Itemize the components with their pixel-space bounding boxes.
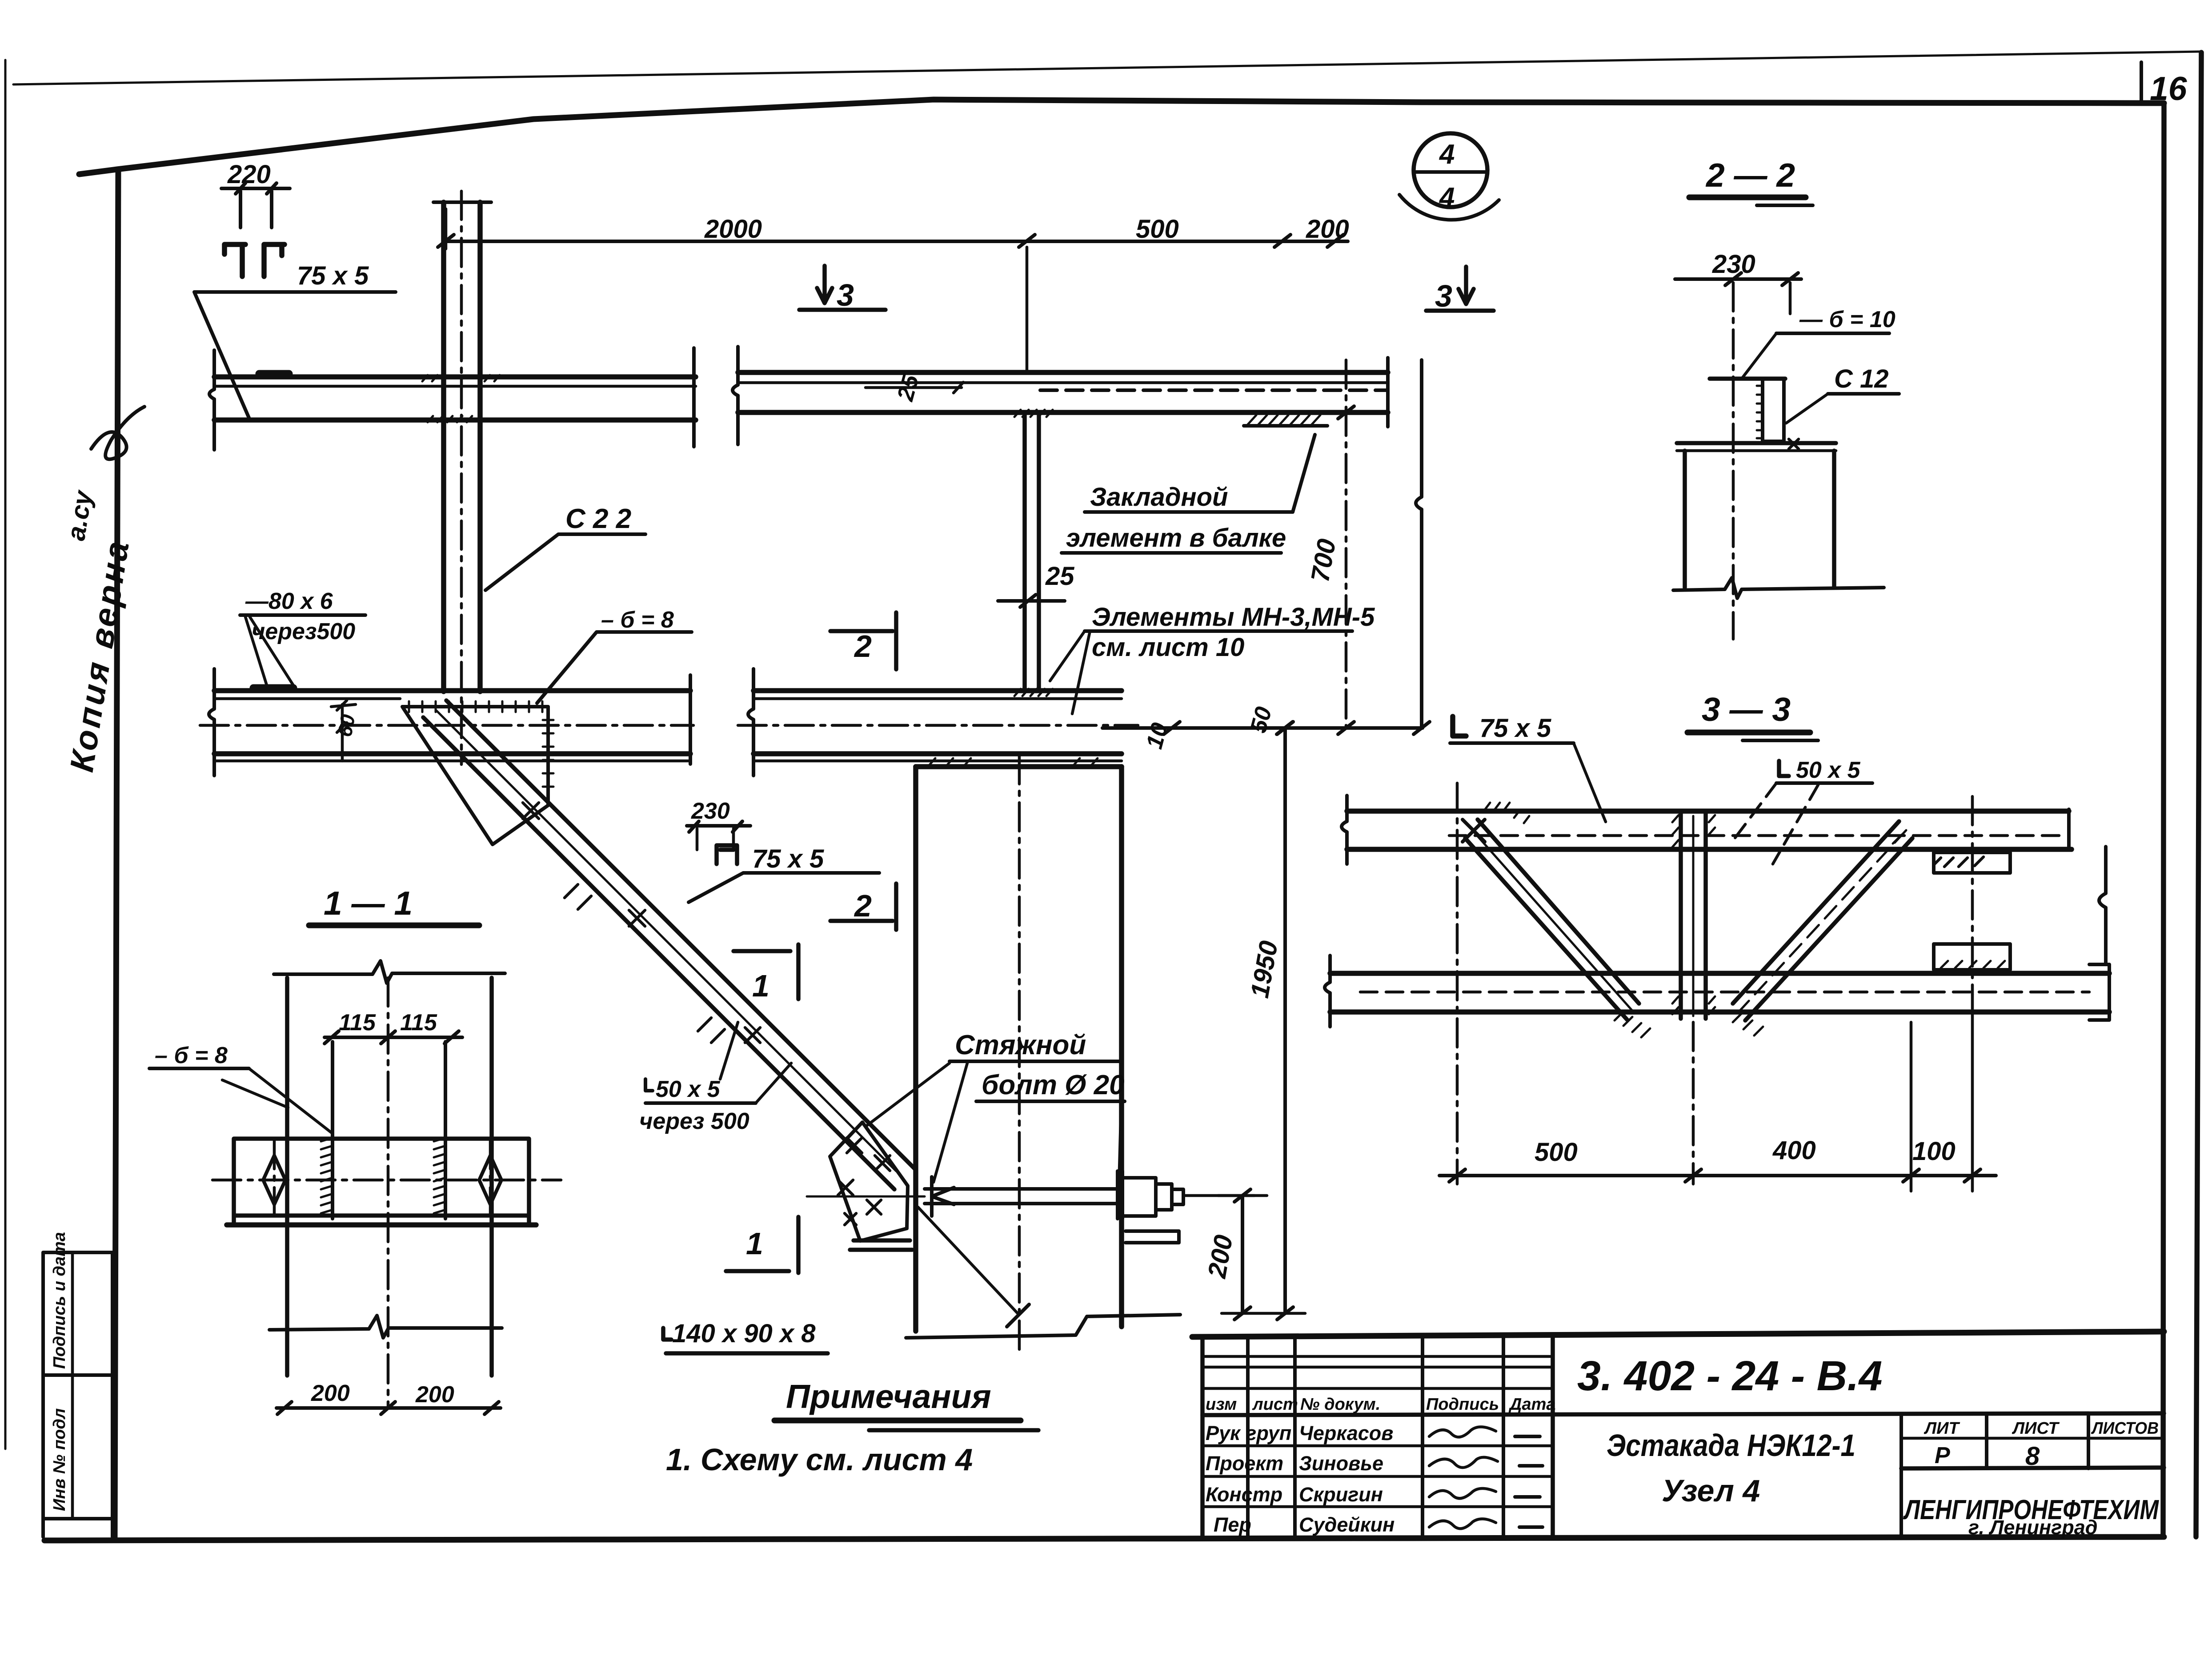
svg-text:230: 230 — [1712, 250, 1755, 279]
svg-text:Элементы МН-3,МН-5: Элементы МН-3,МН-5 — [1092, 603, 1375, 632]
dim 200 vertical at column base — [1241, 1196, 1244, 1313]
dim line 500 400 100 — [1439, 1174, 1996, 1177]
bolt left arrow — [932, 1177, 954, 1216]
svg-text:2 — 2: 2 — 2 — [1705, 156, 1795, 194]
section mark 2 upper — [830, 629, 893, 633]
brace cut ticks — [565, 884, 725, 1043]
beam2 left end break — [209, 669, 214, 776]
diagonal to column base — [918, 1207, 1019, 1315]
frame right inner — [2163, 103, 2164, 1537]
right closure line with break — [1416, 360, 1422, 728]
spring hatch bolt2 — [434, 1138, 445, 1213]
svg-text:4: 4 — [1439, 182, 1455, 213]
lit table rows — [1901, 1437, 2164, 1440]
svg-text:115: 115 — [400, 1010, 437, 1036]
stiffener plate mark on beam1 — [259, 370, 289, 378]
diagonal brace edge B — [446, 700, 915, 1169]
weld ticks at plate bottom — [1014, 689, 1053, 696]
svg-text:— б = 10: — б = 10 — [1799, 307, 1895, 332]
svg-text:Инв № подл: Инв № подл — [50, 1408, 69, 1511]
svg-text:400: 400 — [1772, 1136, 1816, 1165]
bottom chord left break — [1325, 956, 1330, 1027]
svg-text:75 х 5: 75 х 5 — [297, 261, 369, 290]
svg-text:8: 8 — [2025, 1442, 2040, 1471]
plate lower right — [1934, 944, 2010, 970]
label C22 underline and leader — [485, 534, 645, 590]
section mark 3 down-left — [817, 266, 832, 303]
channel glyph right — [264, 244, 285, 276]
top closure line with break — [274, 961, 505, 983]
svg-text:500: 500 — [1136, 215, 1179, 244]
svg-text:2000: 2000 — [704, 215, 762, 244]
top line — [1192, 1332, 2164, 1337]
hidden plate dashed line — [1040, 388, 1386, 392]
stiffener mark on beam2 — [253, 684, 293, 692]
diamond rivet right — [479, 1156, 501, 1204]
brace weld x-marks — [523, 803, 760, 1043]
gusset weld ticks top — [409, 701, 542, 712]
web right — [489, 978, 494, 1376]
svg-text:—80 х 6: —80 х 6 — [245, 588, 333, 614]
channel glyph small — [717, 845, 737, 864]
cap plate — [1710, 376, 1785, 381]
node circle 4/4 — [1414, 133, 1487, 207]
dim extension at post — [445, 209, 448, 249]
post weld ticks — [1672, 815, 1715, 1014]
weld ticks beam1 at post — [422, 375, 500, 422]
beam2 right left end break — [748, 669, 753, 776]
mid post — [1679, 812, 1683, 1019]
beam top 2-2 — [1677, 441, 1836, 445]
svg-text:г. Ленинград: г. Ленинград — [1968, 1516, 2098, 1539]
column 2-2 — [1683, 451, 1687, 588]
post C22 top cap — [433, 200, 491, 204]
leaders to bolt — [866, 1063, 1121, 1182]
svg-text:Черкасов: Черкасов — [1299, 1422, 1393, 1444]
svg-text:115: 115 — [339, 1010, 376, 1036]
rod tail — [1183, 1194, 1254, 1197]
column right edge — [1119, 767, 1124, 1327]
beam1 right bottom line — [738, 410, 1388, 415]
spring hatch bolt1 — [321, 1138, 333, 1213]
leaders 80x6 — [245, 617, 296, 689]
svg-text:2: 2 — [854, 888, 872, 923]
svg-text:лист: лист — [1252, 1395, 1298, 1414]
lower gusset X welds — [838, 1138, 890, 1225]
right diagonal — [1733, 821, 1899, 1004]
svg-text:3: 3 — [1435, 279, 1452, 313]
weld ticks channel — [1757, 386, 1763, 438]
svg-text:Подпись и дата: Подпись и дата — [50, 1232, 69, 1369]
diagonal brace mid line — [436, 710, 896, 1171]
beam1 left: bottom line — [214, 417, 696, 423]
left diagonal end welds — [1615, 1012, 1650, 1037]
svg-text:Проект: Проект — [1206, 1452, 1283, 1475]
frame bottom — [44, 1537, 2164, 1540]
bottom chord right end — [2089, 964, 2109, 1020]
svg-text:С 2 2: С 2 2 — [565, 504, 631, 534]
svg-text:Закладной: Закладной — [1090, 483, 1228, 512]
washer plates — [1116, 1171, 1119, 1219]
svg-text:50 х 5: 50 х 5 — [656, 1076, 721, 1102]
dim 60 rotated — [333, 713, 360, 739]
beam1 right left end break — [733, 347, 738, 444]
svg-text:ЛИТ: ЛИТ — [1923, 1419, 1960, 1438]
channel box — [1763, 379, 1784, 441]
tick line at bolt level — [1218, 1194, 1267, 1197]
dim 220 line — [221, 187, 290, 190]
tick line at bottom — [1222, 1312, 1305, 1315]
beam2 right end tick — [689, 675, 692, 764]
small bracket below nut — [1126, 1231, 1179, 1243]
svg-text:1. Схему см. лист 4: 1. Схему см. лист 4 — [666, 1442, 973, 1477]
frame left — [115, 169, 118, 1539]
svg-text:1: 1 — [752, 968, 769, 1003]
svg-text:Узел 4: Узел 4 — [1662, 1473, 1760, 1508]
weld ticks on column top — [929, 758, 1098, 765]
svg-text:2: 2 — [854, 629, 872, 664]
bottom chord lines — [1330, 971, 2109, 976]
svg-text:С 12: С 12 — [1834, 364, 1889, 393]
svg-text:200: 200 — [311, 1380, 350, 1406]
svg-text:50 х 5: 50 х 5 — [1796, 757, 1861, 783]
dim line 2000/500/200 — [446, 240, 1348, 243]
svg-text:Скригин: Скригин — [1299, 1483, 1383, 1506]
svg-text:3. 402 - 24 - В.4: 3. 402 - 24 - В.4 — [1577, 1352, 1882, 1400]
svg-text:Судейкин: Судейкин — [1299, 1513, 1395, 1536]
svg-text:Рук груп: Рук груп — [1206, 1422, 1291, 1444]
left margin stamp box 2 — [43, 1375, 112, 1519]
plate upper right — [1934, 852, 2010, 873]
column left edge — [913, 767, 918, 1331]
weld tick cluster top chord left — [1485, 803, 1529, 823]
gusset plate on beam2 — [402, 707, 548, 844]
svg-text:220: 220 — [227, 160, 271, 189]
svg-text:Дата: Дата — [1508, 1395, 1556, 1414]
svg-text:через500: через500 — [252, 619, 355, 644]
svg-text:100: 100 — [1912, 1137, 1956, 1166]
svg-text:№ докум.: № докум. — [1300, 1395, 1380, 1414]
beam2 right segment over column — [753, 688, 1122, 693]
truss centerline left — [1456, 783, 1459, 1184]
column centerline — [1018, 756, 1021, 1356]
page number box — [2140, 62, 2143, 104]
beam1 right top lines — [738, 370, 1388, 375]
svg-text:Констр: Констр — [1206, 1483, 1282, 1506]
svg-text:ЛИСТ: ЛИСТ — [2012, 1419, 2060, 1438]
beam2 left top lines — [214, 688, 690, 693]
beam1 left: top flange lines — [214, 374, 696, 380]
header row full width — [1202, 1413, 2164, 1415]
svg-text:75 х 5: 75 х 5 — [1479, 714, 1551, 743]
svg-text:16: 16 — [2150, 70, 2188, 107]
svg-text:Подпись: Подпись — [1426, 1395, 1499, 1414]
frame right outer — [2196, 52, 2201, 1537]
dim 1950 vertical — [1283, 728, 1287, 1313]
right cut line with S break — [2099, 847, 2106, 964]
leader 75x5 — [194, 292, 396, 418]
svg-text:Пер: Пер — [1214, 1513, 1251, 1536]
left table rows — [1202, 1355, 1553, 1358]
svg-text:– б = 8: – б = 8 — [601, 607, 674, 633]
column view2 top — [916, 764, 1122, 769]
web left — [285, 978, 289, 1376]
channel glyph left — [224, 244, 245, 276]
svg-text:200: 200 — [415, 1382, 454, 1408]
dash marks in data column — [1515, 1436, 1543, 1527]
section mark 1 upper — [733, 949, 790, 953]
dim 25 rotated — [892, 372, 924, 404]
flange box — [234, 1139, 529, 1223]
extension line to dim 2000 — [1026, 247, 1029, 372]
post C22 right edge — [477, 202, 483, 692]
beam2 centerline — [200, 724, 693, 727]
plate edge line with 25 dim — [866, 386, 962, 389]
mid post centerline — [1692, 1022, 1695, 1184]
svg-text:Р: Р — [1935, 1443, 1950, 1468]
svg-text:75 х 5: 75 х 5 — [752, 844, 824, 873]
diamond rivet left — [263, 1156, 285, 1204]
column 2-2 bottom break — [1673, 578, 1884, 598]
svg-text:500: 500 — [1535, 1138, 1578, 1167]
diagonal brace edge A — [423, 717, 894, 1189]
post C22 centerline — [460, 191, 463, 764]
lower gusset base plate — [850, 1240, 912, 1250]
left table verticals — [1200, 1337, 1205, 1538]
svg-text:Эстакада НЭК12-1: Эстакада НЭК12-1 — [1607, 1428, 1855, 1463]
left margin stamp box 1 — [43, 1252, 112, 1375]
name rows — [1202, 1444, 1553, 1448]
center line vertical — [387, 978, 390, 1408]
plates centerline — [1971, 796, 1974, 995]
svg-text:болт Ø 20: болт Ø 20 — [982, 1070, 1125, 1100]
svg-text:Стяжной: Стяжной — [955, 1030, 1086, 1060]
svg-text:230: 230 — [691, 798, 730, 824]
svg-text:элемент в балке: элемент в балке — [1066, 524, 1286, 552]
svg-text:200: 200 — [1306, 215, 1349, 244]
beam1 left end break — [209, 350, 214, 450]
dim 700 dash-dot vertical — [1345, 360, 1348, 728]
svg-text:3 — 3: 3 — 3 — [1702, 691, 1791, 728]
left margin inscription: Копия верна — [26, 488, 143, 774]
svg-text:Зиновье: Зиновье — [1299, 1452, 1383, 1475]
column bottom break — [906, 1304, 1180, 1338]
svg-text:Примечания: Примечания — [786, 1378, 991, 1415]
signature flourish — [91, 407, 144, 459]
svg-text:– б = 8: – б = 8 — [155, 1043, 228, 1068]
top chord right end — [2067, 809, 2071, 849]
svg-text:1 — 1: 1 — 1 — [324, 884, 413, 922]
bottom closure line with break — [269, 1316, 502, 1338]
extension for 400/100 — [1910, 1022, 1913, 1191]
lit table verticals — [1899, 1414, 1903, 1538]
centerline 2-2 — [1732, 283, 1735, 639]
bent plate post view2 — [1022, 412, 1027, 691]
beam1 right end tick — [1386, 358, 1390, 427]
gusset weld ticks right — [543, 720, 553, 787]
nut — [1123, 1178, 1183, 1216]
left diagonal — [1478, 820, 1639, 1004]
svg-text:через 500: через 500 — [639, 1108, 749, 1134]
svg-text:3: 3 — [837, 278, 854, 312]
beam2 bottom lines — [214, 751, 690, 756]
lower gusset plate — [830, 1122, 908, 1241]
svg-text:изм: изм — [1206, 1395, 1237, 1414]
dim line 10/50 right of beam — [1102, 726, 1423, 730]
svg-text:ЛИСТОВ: ЛИСТОВ — [2091, 1419, 2159, 1438]
weld ticks at plate top — [1014, 410, 1053, 417]
arc under circle — [1399, 195, 1499, 220]
post C22 left edge — [441, 202, 446, 692]
paper edge top — [13, 52, 2200, 84]
leader to embedded plate — [1293, 435, 1315, 512]
embedded plate with hatch under beam — [1244, 424, 1327, 428]
frame top — [79, 100, 2164, 174]
svg-text:140 х 90 х 8: 140 х 90 х 8 — [672, 1319, 816, 1348]
paper edge left — [4, 60, 7, 1449]
svg-text:4: 4 — [1439, 139, 1455, 170]
beam1 right end tick — [692, 348, 696, 447]
svg-text:см. лист 10: см. лист 10 — [1092, 633, 1244, 662]
svg-text:60: 60 — [333, 713, 360, 739]
top chord left break — [1342, 796, 1347, 864]
top chord lines — [1347, 808, 2069, 814]
bolt 1 — [331, 1042, 334, 1219]
left diagonal X-mark — [1463, 820, 1485, 842]
dim 220 extensions — [239, 191, 242, 228]
tie bolt rod — [925, 1187, 1118, 1191]
horizontal centerline — [212, 1179, 561, 1182]
svg-text:25: 25 — [1045, 562, 1074, 591]
right diagonal end welds — [1733, 835, 1911, 1036]
svg-text:1: 1 — [746, 1226, 763, 1261]
bolt 2 — [444, 1042, 447, 1219]
